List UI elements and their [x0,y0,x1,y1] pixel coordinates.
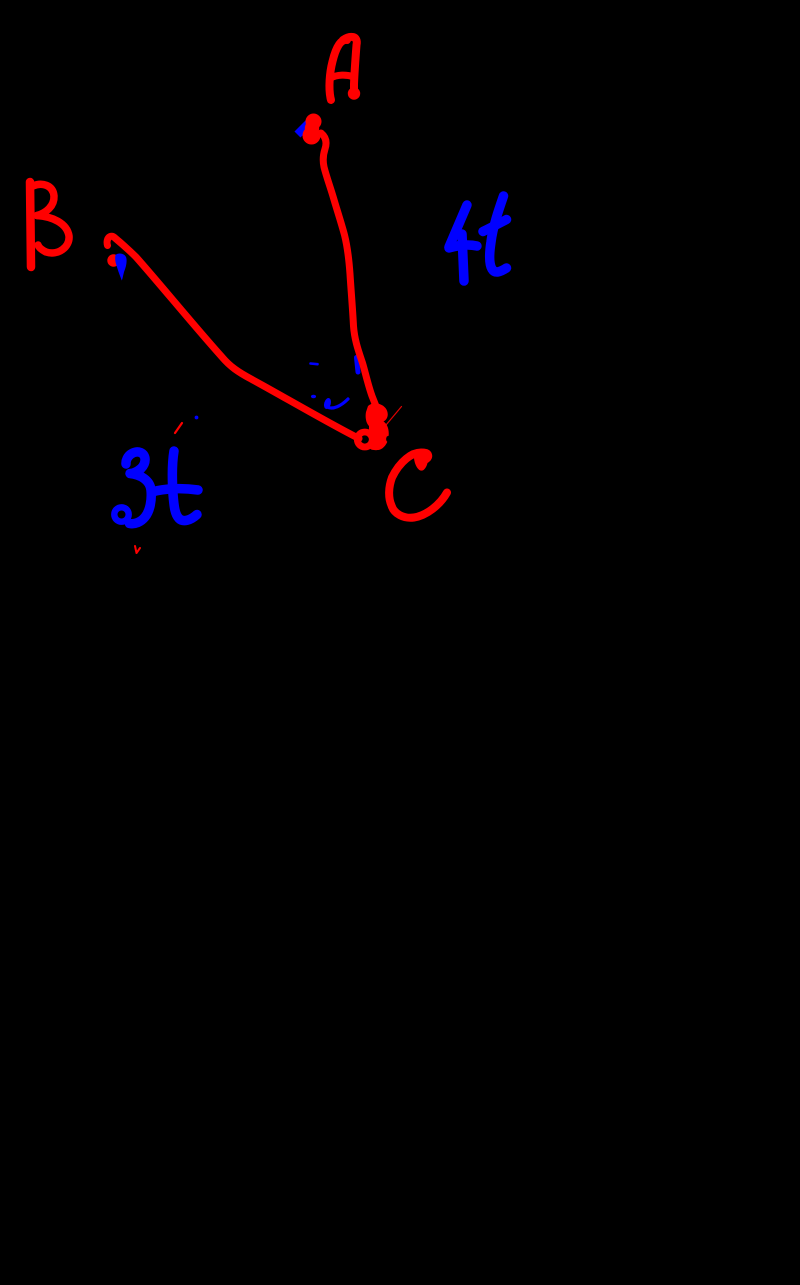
start blob at point A [306,114,322,130]
black notch on right edge of blob [386,436,391,443]
blob lower-left lobe over loop [369,427,387,450]
blue dot left of arc [311,395,316,398]
blue arc end blob [323,397,332,410]
letter C [389,453,447,518]
letter A [329,37,356,100]
blue streak under line AC [357,358,359,373]
blue tick under start blob at A [301,125,308,132]
letter A right-leg foot blob [348,87,360,99]
loop at end of line BC [357,432,372,447]
label 3t [114,451,198,524]
letter B [30,182,69,267]
line from A to C [321,133,378,410]
arrow blob at point C [366,403,389,450]
point B hook and line B to C [107,236,359,438]
red blob under point B hook [107,254,119,266]
thin stray line right of C blob [386,407,402,426]
blue dash above arc [311,362,318,365]
label 4t [449,196,507,281]
letter C start blob [414,449,432,471]
blue angle arc near C [327,399,348,408]
stray red dash near 3t [175,423,182,433]
stray red tick below 3t [135,546,140,553]
blue dot near 3t stray mark [195,416,199,420]
blue comma mark over red blob [115,253,126,280]
